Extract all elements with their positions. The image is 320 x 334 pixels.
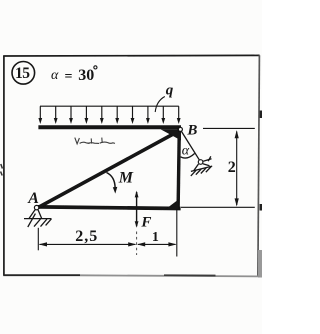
svg-text:α: α (182, 143, 190, 158)
svg-text:F: F (140, 214, 151, 230)
svg-text:=: = (65, 69, 73, 84)
svg-text:q: q (166, 83, 174, 99)
svg-text:2,5: 2,5 (75, 228, 98, 245)
svg-text:2: 2 (228, 159, 236, 176)
svg-text:A: A (27, 190, 39, 207)
svg-text:α: α (51, 68, 59, 83)
svg-text:15: 15 (15, 65, 30, 82)
svg-text:30: 30 (78, 67, 94, 84)
svg-text:1: 1 (152, 230, 159, 245)
svg-text:M: M (118, 169, 134, 186)
svg-text:B: B (186, 123, 197, 139)
